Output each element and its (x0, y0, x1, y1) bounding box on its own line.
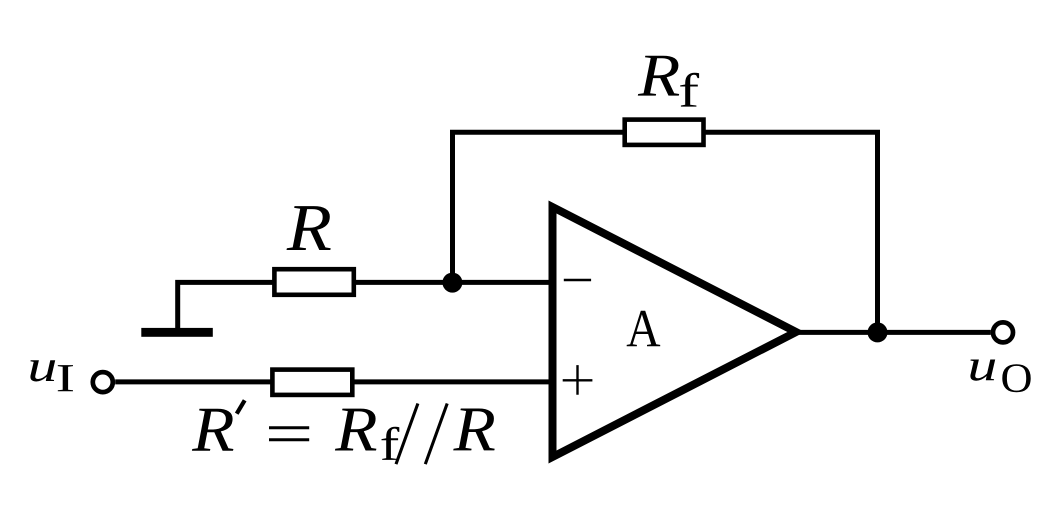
resistor Rf value label (638, 56, 699, 107)
node: inverting input junction dot (442, 273, 462, 293)
resistor R' (272, 370, 352, 395)
input terminal uI (93, 372, 113, 392)
wire: feedback loop (left riser, top run, right riser) (453, 132, 878, 332)
op-amp gain label A (627, 311, 661, 347)
resistor R value label (287, 206, 331, 250)
op-amp non-inverting pin marker (plus) (563, 365, 593, 395)
wire: input terminal to non-inverting input (115, 379, 556, 384)
resistor R (274, 269, 353, 295)
wire: ground stub to resistor R (inverting input branch) (178, 282, 274, 332)
op-amp inverting pin marker (minus) (564, 279, 591, 282)
wire: resistor R to inverting input of op-amp (356, 280, 556, 285)
resistor R' value label: R' = Rf//R (192, 400, 495, 464)
resistor Rf (625, 120, 704, 145)
output label uO (970, 360, 1030, 393)
output terminal uO (993, 322, 1013, 342)
node: output junction dot (868, 322, 888, 342)
op-amp A (553, 207, 797, 457)
ground (141, 328, 213, 337)
input label uI (30, 360, 73, 391)
wire: op-amp output to output terminal (796, 330, 991, 335)
